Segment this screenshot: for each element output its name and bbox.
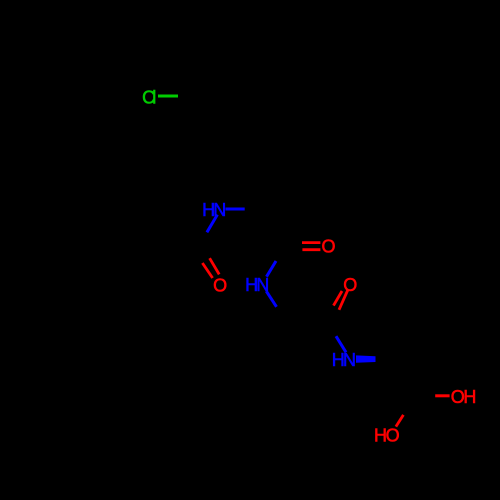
svg-text:O: O <box>321 237 335 257</box>
svg-text:HN: HN <box>245 275 269 295</box>
svg-text:O: O <box>213 276 227 296</box>
svg-text:HN: HN <box>202 200 226 220</box>
svg-text:O: O <box>343 275 357 295</box>
svg-text:Cl: Cl <box>142 87 156 107</box>
svg-text:OH: OH <box>451 387 477 407</box>
svg-text:HO: HO <box>374 425 400 445</box>
svg-text:HN: HN <box>332 350 356 370</box>
